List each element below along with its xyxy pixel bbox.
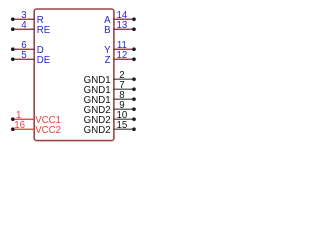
svg-text:VCC2: VCC2 (35, 125, 61, 136)
svg-text:DE: DE (37, 55, 51, 66)
IC body U1 (34, 9, 114, 141)
pin 10 (GND2) wire (113, 118, 134, 120)
pin 15 (GND2) wire (113, 128, 134, 130)
svg-text:12: 12 (117, 50, 128, 61)
pin 2 (GND1) wire (113, 78, 134, 80)
svg-text:15: 15 (117, 120, 128, 131)
pin 7 (GND1) wire (113, 88, 134, 90)
pin 2 endpoint dot (132, 77, 136, 81)
pin 13 endpoint dot (132, 27, 136, 31)
pin 12 (Z) wire (113, 58, 134, 60)
pin 6 endpoint dot (11, 47, 15, 51)
pin 16 (VCC2) wire (13, 128, 35, 130)
pin 5 endpoint dot (11, 57, 15, 61)
svg-text:B: B (104, 25, 110, 36)
pin 11 endpoint dot (132, 47, 136, 51)
pin 4 (RE) wire (13, 28, 35, 30)
pin 8 endpoint dot (132, 97, 136, 101)
pin 9 (GND2) wire (113, 108, 134, 110)
pin 1 (VCC1) wire (13, 118, 35, 120)
pin 12 endpoint dot (132, 57, 136, 61)
svg-text:RE: RE (37, 25, 51, 36)
svg-text:13: 13 (117, 20, 128, 31)
pin 16 endpoint dot (11, 127, 15, 131)
pin 4 endpoint dot (11, 27, 15, 31)
svg-text:Z: Z (105, 55, 111, 66)
pin 7 endpoint dot (132, 87, 136, 91)
pin 13 (B) wire (113, 28, 134, 30)
svg-text:4: 4 (21, 20, 27, 31)
svg-text:GND2: GND2 (84, 125, 111, 136)
pin 5 (DE) wire (13, 58, 35, 60)
svg-text:16: 16 (14, 120, 25, 131)
pin 14 endpoint dot (132, 17, 136, 21)
svg-text:5: 5 (21, 50, 26, 61)
pin 6 (D) wire (13, 48, 35, 50)
pin 1 endpoint dot (11, 117, 15, 121)
pin 14 (A) wire (113, 18, 134, 20)
pin 15 endpoint dot (132, 127, 136, 131)
pin 3 endpoint dot (11, 17, 15, 21)
pin 8 (GND1) wire (113, 98, 134, 100)
pin 3 (R) wire (13, 18, 35, 20)
pin 11 (Y) wire (113, 48, 134, 50)
pin 10 endpoint dot (132, 117, 136, 121)
pin 9 endpoint dot (132, 107, 136, 111)
